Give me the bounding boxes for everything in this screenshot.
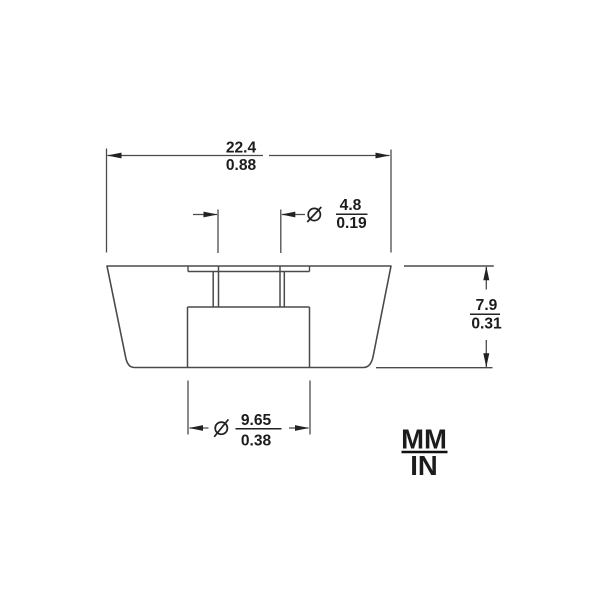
7.9 lower arrowhead (points down) [483,353,489,367]
body outline (trapezoid foot cross-section) [107,266,391,368]
9.65 dim: right extension line [309,381,311,435]
hole wall inner-left [218,266,220,307]
extension line bottom-right (to 7.9 dim) [376,367,493,369]
9.65 right arrowhead (points right) [295,425,309,431]
22.4 dim line left part [108,155,264,157]
22.4 left arrowhead [107,153,122,159]
diameter symbol for 9.65 [214,419,228,436]
svg-text:IN: IN [410,450,438,481]
22.4 dim line right part [269,155,390,157]
9.65 dim: left extension line [187,381,189,435]
hole wall inner-right [279,266,281,307]
hole wall outer-left [212,272,214,308]
9.65 left arrowhead (points left) [189,425,203,431]
4.8 right leader line [282,214,305,216]
4.8 dim: right extension line [280,210,282,254]
svg-text:0.38: 0.38 [241,433,272,450]
7.9 upper arrowhead (points up) [483,266,489,280]
MM/IN fraction bar [402,451,448,454]
hole wall outer-right [283,272,285,308]
7.9 fraction bar [470,313,500,315]
svg-text:4.8: 4.8 [340,197,362,214]
7.9 lower arrow line [485,340,487,367]
svg-text:0.31: 0.31 [471,315,502,332]
recess right tick [309,266,311,272]
22.4 dim: right extension line [390,150,392,253]
diameter symbol for 4.8 [307,207,321,222]
recess floor line [188,271,310,273]
svg-text:22.4: 22.4 [226,140,257,157]
9.65 right leader line [289,427,309,429]
4.8 dim: left extension line [217,210,219,254]
4.8 left leader line [193,214,217,216]
9.65 fraction bar [236,428,282,430]
svg-text:7.9: 7.9 [476,297,498,314]
svg-text:0.88: 0.88 [226,157,257,174]
counterbore left wall [187,307,189,368]
recess left tick [187,266,189,272]
4.8 left arrowhead (points right) [204,212,218,218]
svg-text:9.65: 9.65 [241,412,272,429]
4.8 fraction bar [336,213,368,215]
22.4 dim: left extension line [106,149,108,253]
extension line top-right (to 7.9 dim) [404,265,494,267]
22.4 right arrowhead [376,153,391,159]
counterbore right wall [309,307,311,368]
7.9 dim: upper arrow line [485,267,487,290]
svg-text:0.19: 0.19 [336,215,367,232]
9.65 left leader line [190,427,209,429]
4.8 right arrowhead (points left) [281,212,295,218]
counterbore top [188,306,310,308]
